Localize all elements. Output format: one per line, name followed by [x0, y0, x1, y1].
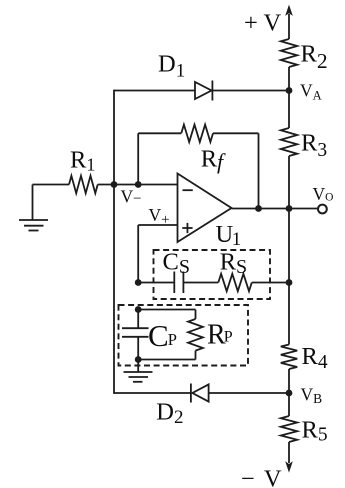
wire feedback left vertical — [137, 133, 139, 184]
junction dot V+ branch / Cs wire — [135, 279, 142, 286]
junction dot Cp top — [135, 306, 142, 313]
svg-text:+ V: + V — [244, 10, 281, 37]
wire rail output node to Cs node — [288, 209, 290, 283]
junction dot rail / Cs wire — [286, 279, 293, 286]
dashed box series RC — [154, 250, 271, 299]
wire non-inverting input — [138, 224, 177, 226]
wire Cp top to Rp top — [138, 309, 195, 311]
wire D2 anode to node B — [209, 392, 289, 394]
resistor R4 — [281, 345, 297, 370]
wire feedback top right — [213, 132, 259, 134]
wire feedback top left — [138, 132, 181, 134]
resistor Rs — [218, 274, 252, 291]
resistor R2 — [281, 39, 297, 67]
+V supply arrow — [285, 5, 293, 39]
wire feedback right vertical — [258, 133, 260, 208]
resistor Rp — [188, 310, 203, 360]
capacitor Cp — [122, 310, 149, 360]
wire rail R2 to node A — [288, 67, 290, 91]
wire rail R3 to output node — [288, 156, 290, 209]
wire rail R4 to node B — [288, 369, 290, 393]
diode D2 — [191, 384, 209, 403]
wire inverting input — [98, 184, 178, 186]
wire Cp bottom to Rp bottom — [138, 359, 195, 361]
resistor R1 — [33, 176, 98, 193]
node B junction dot — [286, 390, 293, 397]
wire rail Cs node to R4 — [288, 283, 290, 345]
node V- junction dot — [135, 181, 142, 188]
resistor R5 — [281, 416, 297, 442]
junction dot Cp bottom — [135, 356, 142, 363]
wire D2 cathode to left loop — [114, 392, 191, 394]
resistor Rf — [181, 125, 213, 142]
wire D1 cathode to node A — [212, 90, 289, 92]
wire rail node B to R5 — [288, 393, 290, 416]
-V supply arrow — [285, 442, 293, 473]
junction dot feedback / output — [255, 205, 262, 212]
wire rail node A to R3 — [288, 91, 290, 129]
dashed box parallel RC — [119, 305, 249, 366]
wire op-amp output — [232, 208, 319, 210]
wire D1 anode from left loop — [114, 90, 195, 92]
junction dot rail / output — [286, 205, 293, 212]
op-amp U1 — [178, 174, 232, 243]
node A junction dot — [286, 87, 293, 94]
diode D1 — [195, 81, 212, 101]
wire Rs to rail — [252, 282, 289, 284]
capacitor Cs — [174, 272, 183, 294]
resistor R3 — [281, 128, 297, 156]
wire V+ branch vertical — [137, 225, 139, 283]
ground (Cp branch) — [124, 360, 153, 382]
ground (input) — [19, 185, 48, 231]
junction dot left loop / inverting wire — [111, 181, 118, 188]
svg-text:Rf: Rf — [201, 145, 226, 174]
wire Cs left — [138, 282, 174, 284]
wire left loop vertical — [113, 90, 115, 394]
output terminal Vo circle — [318, 205, 327, 214]
wire Cs to Rs — [184, 282, 219, 284]
